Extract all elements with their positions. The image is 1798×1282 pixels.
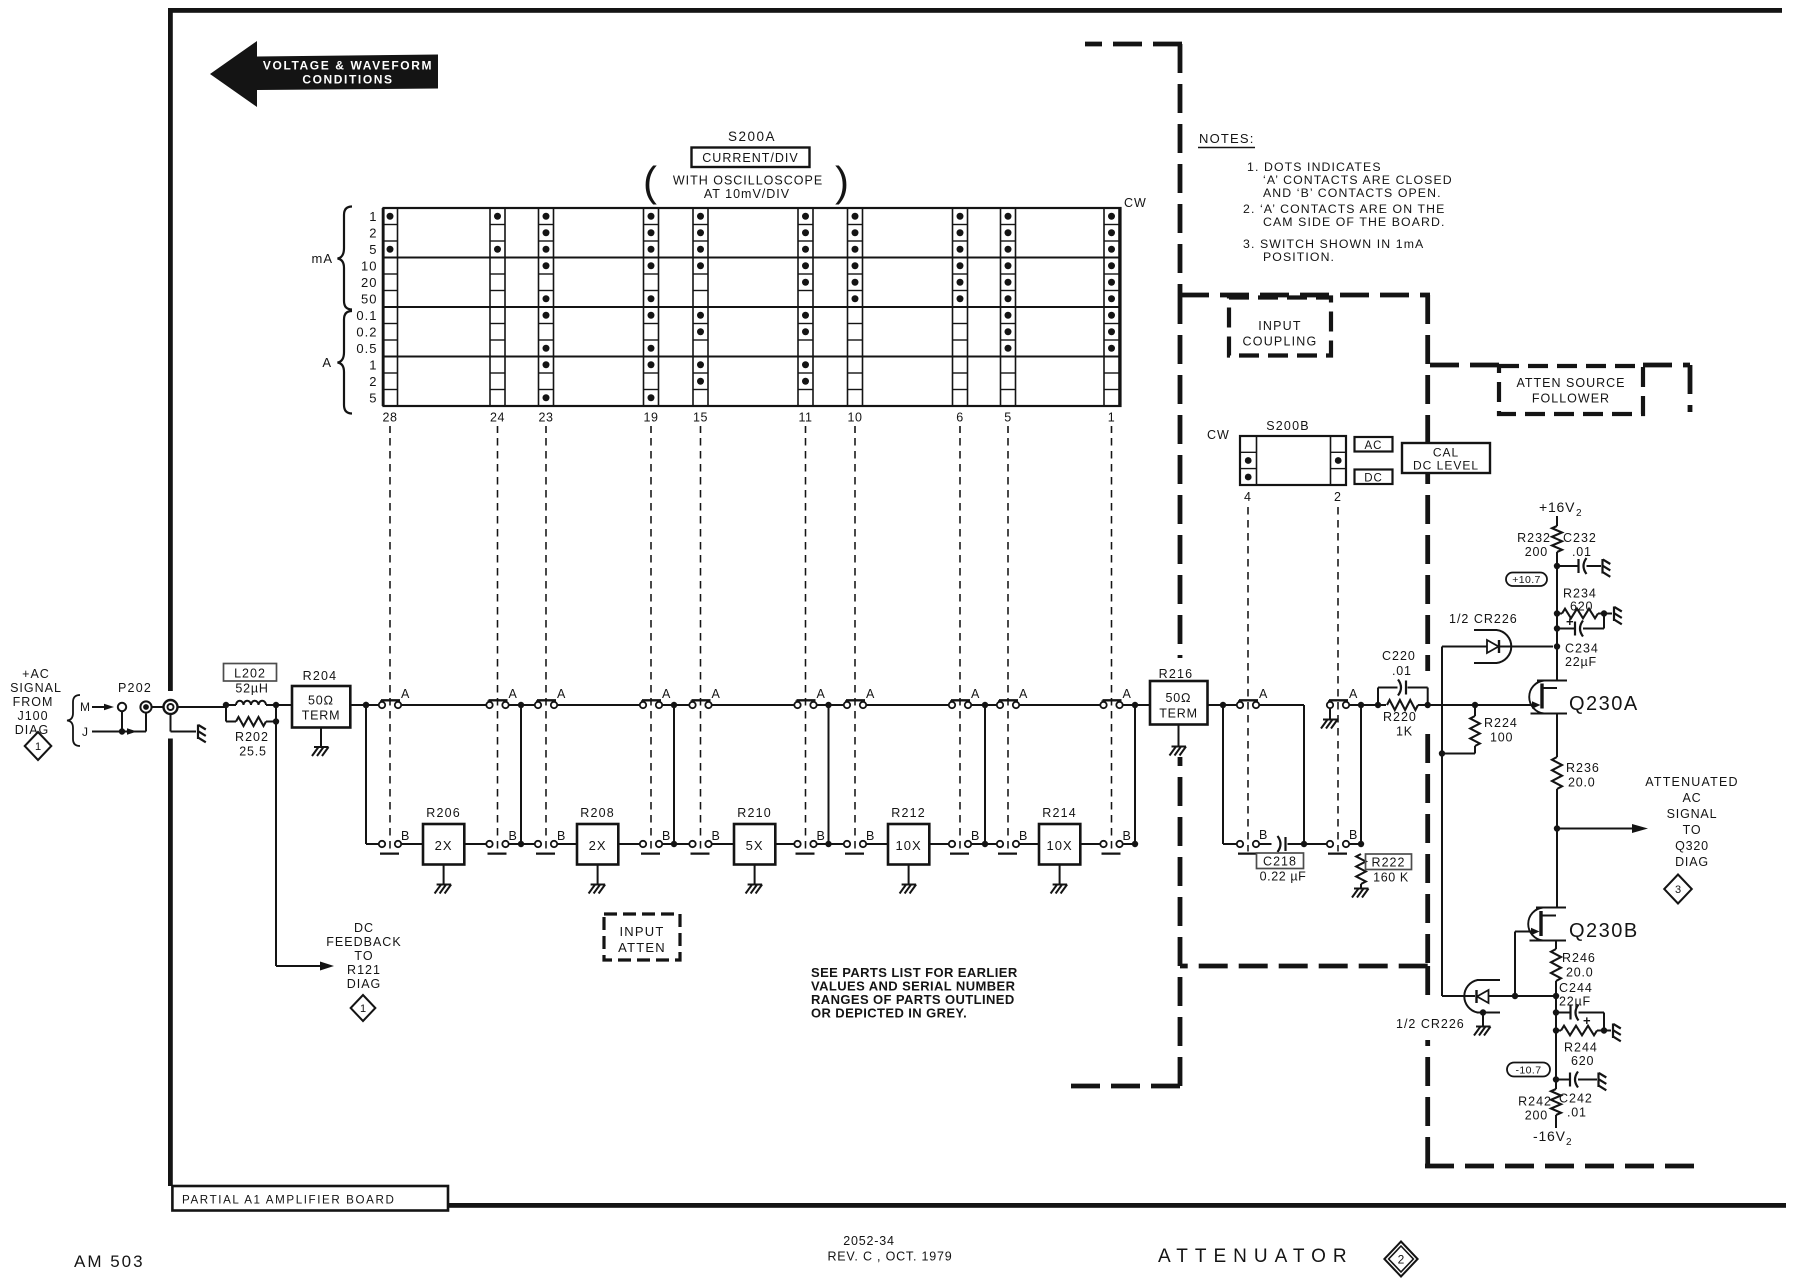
- wire: R216 to coupling contacts: [1208, 704, 1237, 706]
- svg-text:50: 50: [361, 291, 377, 306]
- svg-text:A: A: [1349, 687, 1358, 701]
- svg-text:3: 3: [1675, 884, 1681, 896]
- svg-text:20: 20: [361, 275, 377, 290]
- capacitor C218: [1284, 837, 1286, 851]
- attenuated output text: [1645, 775, 1738, 869]
- junction dots at C244: [1553, 1009, 1559, 1015]
- junction (input tie): [363, 702, 369, 708]
- svg-text:2: 2: [1334, 490, 1342, 504]
- coupling B contact (pin 4): [1238, 852, 1257, 854]
- ground at R234: [1613, 607, 1615, 622]
- switch S200B pin 4 dashed link: [1247, 507, 1249, 852]
- svg-text:B: B: [509, 829, 517, 843]
- junction at C242: [1553, 1076, 1559, 1082]
- cam contacts S200A (A row and B row): [379, 687, 1132, 854]
- cam boundary dashed line: right end stub: [1688, 365, 1693, 412]
- svg-text:22µF: 22µF: [1565, 655, 1597, 669]
- svg-text:(: (: [643, 158, 657, 205]
- svg-text:TERM: TERM: [1159, 707, 1198, 721]
- svg-text:5: 5: [369, 242, 377, 257]
- coupling A contact (pin 2, DC): [1329, 699, 1348, 701]
- wire: +16V to R232: [1556, 516, 1558, 526]
- resistor R222: [1356, 854, 1366, 884]
- A-row signal wire segments: [366, 704, 1150, 706]
- svg-text:R224: R224: [1484, 716, 1518, 730]
- svg-text:-10.7: -10.7: [1516, 1065, 1542, 1077]
- label box INPUT COUPLING (dashed): [1229, 298, 1331, 356]
- svg-text:B: B: [557, 829, 565, 843]
- svg-text:Q230B: Q230B: [1569, 920, 1639, 942]
- svg-text:R212: R212: [891, 806, 926, 820]
- svg-text:R222: R222: [1372, 856, 1406, 870]
- label box ATTEN SOURCE FOLLOWER (dashed): [1499, 366, 1643, 414]
- svg-text:1: 1: [360, 1003, 366, 1015]
- cam boundary dashed line: bottom-left corner horizontal: [1070, 1084, 1180, 1089]
- resistor R242: [1551, 1089, 1561, 1115]
- resistor R234: [1562, 609, 1598, 619]
- svg-text:R232: R232: [1517, 531, 1551, 545]
- ground below R222: [1354, 888, 1369, 890]
- svg-text:COUPLING: COUPLING: [1243, 335, 1318, 349]
- svg-text:CONDITIONS: CONDITIONS: [302, 73, 393, 87]
- resistor R216 50-ohm termination box: [1150, 681, 1208, 725]
- diagram reference diamond 3 (output): [1664, 875, 1692, 904]
- svg-text:SIGNAL: SIGNAL: [1667, 807, 1718, 821]
- svg-text:AT 10mV/DIV: AT 10mV/DIV: [704, 187, 790, 201]
- input signal source text: [10, 667, 62, 737]
- cam boundary dashed line: left vertical middle: [1178, 295, 1183, 658]
- svg-text:A: A: [401, 687, 410, 701]
- cam boundary dashed line: right vertical below tee: [1425, 966, 1430, 1003]
- svg-text:2: 2: [369, 374, 377, 389]
- svg-text:20.0: 20.0: [1568, 776, 1596, 790]
- junction dots at C220: [1375, 702, 1381, 708]
- svg-text:5X: 5X: [746, 838, 764, 853]
- svg-text:SIGNAL: SIGNAL: [10, 681, 62, 695]
- resistor R204 50-ohm termination box: [292, 686, 350, 728]
- switch S200A CURRENT/DIV label box: [692, 148, 810, 168]
- cam boundary dashed line: left vertical upper: [1178, 44, 1183, 295]
- svg-text:AND ‘B’ CONTACTS OPEN.: AND ‘B’ CONTACTS OPEN.: [1263, 186, 1442, 200]
- svg-text:3. SWITCH SHOWN IN 1mA: 3. SWITCH SHOWN IN 1mA: [1243, 237, 1424, 251]
- svg-text:2: 2: [1398, 1252, 1405, 1266]
- ground below R210: [754, 865, 756, 885]
- label box AC: [1355, 437, 1393, 452]
- svg-text:REV. C , OCT. 1979: REV. C , OCT. 1979: [827, 1250, 952, 1264]
- cam boundary dashed line: bottom horizontal: [1425, 1164, 1695, 1169]
- wire: M pin to jack link: [121, 711, 123, 731]
- svg-text:22µF: 22µF: [1559, 995, 1591, 1009]
- svg-text:200: 200: [1525, 1109, 1548, 1123]
- junction dots at R234: [1554, 610, 1560, 616]
- svg-text:C244: C244: [1559, 981, 1593, 995]
- wire: CR226 anode riser: [1441, 647, 1443, 997]
- svg-text:A: A: [1019, 687, 1028, 701]
- switch matrix S200A mA row-group brace: [338, 207, 353, 310]
- cam boundary dashed line: left vertical lower: [1178, 757, 1183, 1086]
- capacitor C218 label (grey boxed): [1257, 853, 1304, 869]
- junction at C232: [1554, 563, 1560, 569]
- inductor L202: [236, 701, 266, 705]
- junction dots at R224: [1472, 702, 1478, 708]
- svg-text:CURRENT/DIV: CURRENT/DIV: [702, 151, 798, 165]
- svg-text:B: B: [971, 829, 979, 843]
- svg-text:R244: R244: [1564, 1041, 1598, 1055]
- svg-text:B: B: [1123, 829, 1131, 843]
- cam boundary dashed line: atten source follower horizontal right: [1643, 363, 1690, 368]
- svg-text:B: B: [662, 829, 670, 843]
- svg-text:19: 19: [644, 411, 659, 425]
- svg-text:A: A: [971, 687, 980, 701]
- svg-text:+: +: [1566, 614, 1574, 629]
- svg-text:P202: P202: [118, 681, 152, 695]
- diode 1/2 CR226 (upper): [1442, 646, 1487, 648]
- resistor R232: [1552, 526, 1562, 552]
- svg-text:10X: 10X: [896, 838, 922, 853]
- svg-text:5: 5: [369, 390, 377, 405]
- svg-text:0.22 µF: 0.22 µF: [1260, 870, 1307, 884]
- capacitor C232: [1557, 565, 1579, 567]
- connector P202 pin (jack): [140, 701, 151, 712]
- svg-text:C234: C234: [1565, 642, 1599, 656]
- ground below R206: [443, 865, 445, 885]
- switch matrix S200A A row-group brace: [338, 311, 353, 414]
- svg-text:A: A: [1123, 687, 1132, 701]
- ground below R208: [597, 865, 599, 885]
- junction dots at CR226b: [1512, 993, 1518, 999]
- svg-text:R206: R206: [426, 806, 461, 820]
- svg-text:1K: 1K: [1396, 725, 1413, 739]
- svg-text:11: 11: [799, 411, 813, 425]
- svg-text:1: 1: [369, 357, 377, 372]
- input pins brace: [67, 695, 80, 746]
- svg-text:CW: CW: [1207, 428, 1230, 442]
- capacitor C242: [1556, 1079, 1570, 1081]
- svg-text:1: 1: [1108, 411, 1115, 425]
- junction at C218 right: [1301, 841, 1307, 847]
- svg-text:M: M: [80, 700, 90, 714]
- svg-text:DC: DC: [354, 921, 374, 935]
- label box PARTIAL A1 AMPLIFIER BOARD: [172, 1186, 448, 1211]
- svg-text:50Ω: 50Ω: [308, 694, 334, 708]
- svg-text:ATTEN SOURCE: ATTEN SOURCE: [1517, 376, 1626, 390]
- board outline: left border bar (upper): [168, 8, 173, 691]
- svg-text:A: A: [509, 687, 518, 701]
- board outline: left border bar (lower): [168, 739, 173, 1187]
- svg-text:R216: R216: [1159, 667, 1194, 681]
- svg-text:B: B: [1349, 828, 1357, 842]
- svg-text:25.5: 25.5: [239, 745, 267, 759]
- svg-text:J100: J100: [17, 709, 48, 723]
- switch matrix S200A column number labels: [383, 411, 1116, 434]
- junction (M/J tie): [119, 728, 125, 734]
- svg-text:1. DOTS INDICATES: 1. DOTS INDICATES: [1247, 160, 1382, 174]
- svg-text:10X: 10X: [1047, 838, 1073, 853]
- svg-text:R242: R242: [1518, 1095, 1552, 1109]
- ground below R216: [1178, 725, 1180, 747]
- wire: L202/R202 parallel ties: [225, 705, 227, 722]
- junction at output node: [1554, 825, 1560, 831]
- svg-text:VOLTAGE & WAVEFORM: VOLTAGE & WAVEFORM: [263, 59, 433, 73]
- ground at R244: [1612, 1024, 1614, 1039]
- cam boundary dashed line: atten source follower horizontal left: [1430, 363, 1499, 368]
- B-row wire segments: [366, 843, 1135, 845]
- coax feedthrough connector: [164, 700, 178, 714]
- svg-text:‘A’ CONTACTS ARE CLOSED: ‘A’ CONTACTS ARE CLOSED: [1263, 173, 1453, 187]
- -10.7 volts callout: [1507, 1063, 1550, 1077]
- wire: Q230B source: [1555, 941, 1557, 950]
- junction at +16V rail / CR226: [1554, 643, 1560, 649]
- svg-text:28: 28: [383, 411, 398, 425]
- switch matrix S200A row labels: [356, 209, 377, 406]
- dc feedback line to R121: [275, 722, 277, 967]
- svg-text:DIAG: DIAG: [1675, 855, 1709, 869]
- svg-text:50Ω: 50Ω: [1166, 691, 1192, 705]
- diode 1/2 CR226 (upper) envelope: [1474, 629, 1497, 631]
- svg-text:R208: R208: [580, 806, 615, 820]
- svg-text:2X: 2X: [589, 838, 607, 853]
- svg-text:2. ‘A’ CONTACTS ARE ON THE: 2. ‘A’ CONTACTS ARE ON THE: [1243, 202, 1445, 216]
- label box DC: [1355, 470, 1393, 485]
- svg-text:1/2 CR226: 1/2 CR226: [1396, 1017, 1465, 1031]
- svg-text:FROM: FROM: [13, 695, 54, 709]
- svg-text:AC: AC: [1365, 440, 1383, 452]
- coupling B contact (pin 2): [1328, 852, 1347, 854]
- svg-text:10: 10: [361, 258, 377, 273]
- resistor R202: [236, 717, 266, 726]
- svg-text:L202: L202: [234, 667, 266, 681]
- resistor R244: [1561, 1026, 1597, 1036]
- svg-text:B: B: [866, 829, 874, 843]
- diode 1/2 CR226 (lower) envelope: [1477, 979, 1500, 981]
- svg-text:C242: C242: [1559, 1092, 1593, 1106]
- svg-text:6: 6: [956, 411, 963, 425]
- wire: Q230A source rail: [1556, 714, 1558, 758]
- resistor R224: [1474, 705, 1476, 716]
- wire: pin2 A to C220 section: [1349, 704, 1386, 706]
- ground at C232: [1601, 559, 1603, 574]
- diagram reference diamond 2 (sheet): [1384, 1242, 1417, 1277]
- svg-text:C220: C220: [1382, 649, 1416, 663]
- switch matrix S200A grid: [383, 208, 1121, 406]
- svg-text:-16V: -16V: [1533, 1128, 1566, 1144]
- svg-text:TERM: TERM: [302, 709, 341, 723]
- svg-text:R202: R202: [235, 730, 269, 744]
- diagram reference diamond 1 (feedback): [351, 995, 376, 1021]
- svg-text:R121: R121: [347, 963, 381, 977]
- cam boundary dashed line: horizontal at input coupling: [1180, 293, 1430, 298]
- cam switch column dashed lines S200A: [390, 438, 1112, 852]
- svg-text:DC: DC: [1364, 473, 1383, 485]
- svg-text:ATTENUATOR: ATTENUATOR: [1158, 1246, 1354, 1267]
- diode 1/2 CR226 (lower): [1442, 995, 1475, 997]
- notes text block: [1198, 131, 1453, 264]
- junction dots at R222 riser: [1358, 702, 1364, 708]
- wire: R220 to Q230A gate: [1418, 704, 1532, 706]
- svg-text:CW: CW: [1124, 196, 1147, 210]
- cam boundary dashed line: middle horizontal tee: [1180, 964, 1428, 969]
- capacitor C220 bypass loop: [1377, 688, 1379, 706]
- svg-text:DC LEVEL: DC LEVEL: [1413, 459, 1479, 473]
- svg-text:Q230A: Q230A: [1569, 693, 1639, 715]
- svg-text:FOLLOWER: FOLLOWER: [1532, 392, 1610, 406]
- wire: Q230B gate: [1515, 931, 1531, 933]
- svg-text:1: 1: [35, 741, 41, 753]
- svg-text:620: 620: [1571, 1054, 1594, 1068]
- svg-text:+10.7: +10.7: [1512, 574, 1541, 586]
- svg-text:A: A: [1259, 687, 1268, 701]
- svg-text:J: J: [82, 725, 88, 739]
- svg-text:A: A: [712, 687, 721, 701]
- svg-text:A: A: [322, 355, 332, 370]
- see parts list note: [811, 965, 1018, 1021]
- junction dots on ladder: [363, 702, 1138, 847]
- svg-text:A: A: [557, 687, 566, 701]
- wire: pin2 B to R222: [1349, 843, 1361, 845]
- svg-text:): ): [835, 158, 849, 205]
- svg-text:1: 1: [369, 209, 377, 224]
- svg-text:AC: AC: [1683, 791, 1702, 805]
- voltage & waveform conditions arrow: [210, 41, 438, 107]
- wire: R222 riser: [1360, 705, 1362, 844]
- cam boundary dashed line: right vertical lower (lower half): [1425, 1040, 1430, 1166]
- svg-text:B: B: [1019, 829, 1027, 843]
- svg-text:10: 10: [848, 411, 863, 425]
- svg-text:R204: R204: [303, 669, 338, 683]
- svg-text:4: 4: [1244, 490, 1252, 504]
- svg-text:S200B: S200B: [1266, 419, 1310, 433]
- resistor R220: [1387, 700, 1418, 710]
- svg-text:2: 2: [1566, 1137, 1572, 1148]
- svg-text:200: 200: [1525, 545, 1548, 559]
- ground at CR226b envelope: [1480, 1009, 1486, 1015]
- svg-text:.01: .01: [1572, 545, 1592, 559]
- resistor R236: [1552, 757, 1562, 789]
- ground below R214: [1059, 865, 1061, 885]
- wire: C218 connections: [1259, 843, 1271, 845]
- svg-text:S200A: S200A: [728, 129, 776, 144]
- cam boundary dashed line: top horizontal: [1085, 42, 1182, 47]
- diagram reference diamond 1 (input): [25, 732, 52, 760]
- svg-text:24: 24: [490, 411, 505, 425]
- svg-text:POSITION.: POSITION.: [1263, 250, 1335, 264]
- svg-text:NOTES:: NOTES:: [1199, 131, 1255, 146]
- svg-text:ATTENUATED: ATTENUATED: [1645, 775, 1738, 789]
- attenuated output arrow: [1557, 828, 1632, 830]
- svg-text:B: B: [712, 829, 720, 843]
- svg-text:100: 100: [1490, 731, 1513, 745]
- board outline: bottom border line: [448, 1203, 1786, 1208]
- resistor R246: [1551, 949, 1561, 981]
- svg-text:A: A: [662, 687, 671, 701]
- wire: R204 to first contact: [350, 704, 378, 706]
- label box INPUT ATTEN (dashed): [604, 914, 680, 960]
- svg-text:DIAG: DIAG: [347, 977, 382, 991]
- junction dots at R244: [1553, 1027, 1559, 1033]
- junction at C234: [1554, 625, 1560, 631]
- inductor L202 label (grey boxed): [224, 664, 277, 682]
- cam boundary dashed line: right vertical upper: [1425, 295, 1430, 671]
- svg-text:mA: mA: [312, 251, 334, 266]
- ground at pin2 A contact: [1329, 709, 1331, 719]
- svg-text:0.5: 0.5: [356, 341, 377, 356]
- svg-text:+AC: +AC: [22, 667, 50, 681]
- switch matrix S200A contact dots: [387, 213, 1116, 402]
- svg-text:.01: .01: [1392, 664, 1412, 678]
- svg-text:TO: TO: [1683, 823, 1702, 837]
- svg-text:B: B: [1259, 828, 1267, 842]
- svg-text:5: 5: [1004, 411, 1011, 425]
- svg-text:DIAG: DIAG: [15, 723, 50, 737]
- svg-text:INPUT: INPUT: [620, 924, 665, 939]
- svg-text:INPUT: INPUT: [1258, 319, 1302, 333]
- wire: jack to coax: [152, 706, 164, 708]
- svg-text:ATTEN: ATTEN: [618, 940, 666, 955]
- +10.7 volts callout: [1506, 573, 1547, 587]
- svg-text:.01: .01: [1567, 1106, 1587, 1120]
- ground below R212: [908, 865, 910, 885]
- wire: R224 to riser: [1442, 753, 1475, 755]
- section tie wires (A to B): [366, 705, 1135, 844]
- wire: pin4 A to C218 riser: [1259, 704, 1304, 706]
- svg-text:52µH: 52µH: [235, 682, 268, 696]
- svg-text:FEEDBACK: FEEDBACK: [326, 935, 401, 949]
- svg-text:+16V: +16V: [1539, 499, 1575, 515]
- svg-text:TO: TO: [354, 949, 373, 963]
- svg-text:23: 23: [539, 411, 554, 425]
- svg-text:15: 15: [693, 411, 708, 425]
- transistor Q230B (FET): [1528, 908, 1566, 941]
- svg-text:2052-34: 2052-34: [843, 1234, 894, 1248]
- coupling A contact (pin 4, AC): [1239, 699, 1258, 701]
- svg-text:A: A: [817, 687, 826, 701]
- connector P202 pin (open): [118, 703, 126, 711]
- cam boundary dashed line: right vertical lower (upper half): [1425, 734, 1430, 966]
- junction after R216: [1220, 702, 1226, 708]
- svg-text:R246: R246: [1562, 951, 1596, 965]
- svg-text:2: 2: [369, 225, 377, 240]
- ground below R204: [320, 728, 322, 747]
- capacitor C244 (electrolytic): [1556, 1012, 1571, 1014]
- svg-text:0.2: 0.2: [356, 324, 377, 339]
- svg-text:A: A: [866, 687, 875, 701]
- wire: coupling bypass riser (left): [1222, 705, 1224, 844]
- svg-text:2X: 2X: [435, 838, 453, 853]
- svg-text:R234: R234: [1563, 587, 1597, 601]
- board outline: top border line: [168, 8, 1782, 13]
- svg-text:WITH OSCILLOSCOPE: WITH OSCILLOSCOPE: [673, 174, 823, 188]
- svg-text:B: B: [817, 829, 825, 843]
- svg-text:160 K: 160 K: [1373, 871, 1409, 885]
- svg-text:PARTIAL A1 AMPLIFIER BOARD: PARTIAL A1 AMPLIFIER BOARD: [182, 1194, 395, 1207]
- svg-text:B: B: [401, 829, 409, 843]
- svg-text:2: 2: [1576, 508, 1582, 519]
- svg-text:Q320: Q320: [1675, 839, 1709, 853]
- switch S200B pin 2 dashed link: [1337, 507, 1339, 852]
- coax shield ground: [170, 714, 172, 732]
- svg-text:C218: C218: [1263, 855, 1297, 869]
- svg-text:CAM SIDE OF THE BOARD.: CAM SIDE OF THE BOARD.: [1263, 215, 1446, 229]
- label box CAL DC LEVEL: [1402, 443, 1490, 473]
- svg-text:R236: R236: [1566, 761, 1600, 775]
- transistor Q230A (FET source follower): [1529, 681, 1567, 714]
- junction dots at L202/R202: [223, 702, 229, 708]
- resistor R222 label (grey boxed): [1366, 854, 1412, 870]
- svg-text:1/2 CR226: 1/2 CR226: [1449, 612, 1518, 626]
- ground at C242: [1597, 1073, 1599, 1088]
- svg-text:R214: R214: [1042, 806, 1077, 820]
- wire: coax to L202 node: [178, 706, 227, 708]
